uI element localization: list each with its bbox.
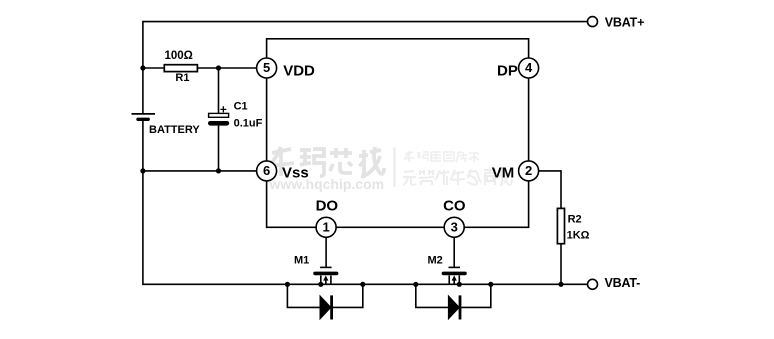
wire C1 top [218,68,220,113]
wire Vss row [143,170,257,172]
left rail wire (top) [142,21,144,114]
transistor M2 [428,254,466,284]
diode D1 (M1 body diode) [287,284,362,319]
pin 4 DP [519,58,539,78]
pin 1 DO [316,217,336,237]
svg-text:0.1uF: 0.1uF [234,118,263,130]
svg-text:3: 3 [451,219,458,234]
wire pin3 to M2 gate [453,237,455,267]
pin 2 VM [519,161,539,181]
terminal VBAT- [588,279,598,289]
node junction R2/rail [558,282,563,287]
wire VM to R2 [539,171,561,209]
terminal VBAT+ [588,17,598,27]
svg-text:BATTERY: BATTERY [149,124,200,136]
pin 5 VDD [257,58,277,78]
node junction M2 source/rail [457,282,462,287]
svg-text:M1: M1 [294,255,309,267]
diode D2 (M2 body diode) [416,284,491,319]
node junction D1 cathode/rail [360,282,365,287]
svg-text:4: 4 [525,60,533,75]
resistor R1 [164,50,197,84]
svg-text:VDD: VDD [283,63,315,80]
char 4 [359,147,384,177]
svg-text:DP: DP [497,63,518,80]
bottom rail wire to VBAT- [143,283,588,285]
node junction D2 cathode/rail [488,282,493,287]
char 1 [269,147,294,176]
char 2 [300,149,324,176]
svg-text:M2: M2 [428,254,443,266]
wire R2 to bottom rail [560,244,562,285]
node junction R1/C1 [216,65,221,70]
top rail wire (battery+ to VBAT+) [143,21,588,23]
watermark 华强集团旗下 [404,151,479,162]
resistor R2 [557,208,589,243]
svg-text:2: 2 [525,163,532,178]
char 3 [330,148,352,173]
node junction C1/Vss [216,168,221,173]
svg-text:6: 6 [263,163,270,178]
pin 6 Vss [257,161,277,181]
capacitor C1 [209,101,263,130]
node junction D1 anode/rail [285,282,290,287]
svg-text:CO: CO [443,197,466,214]
svg-text:Vss: Vss [282,165,309,182]
svg-text:C1: C1 [234,101,248,113]
node junction D2 anode/rail [413,282,418,287]
svg-text:1KΩ: 1KΩ [567,229,590,241]
svg-text:VBAT+: VBAT+ [605,15,644,29]
battery BATTERY [132,114,201,136]
watermark 元器件在线商城 [403,168,512,185]
wire VDD row [143,67,257,69]
svg-text:VM: VM [492,165,515,182]
pin 3 CO [444,217,464,237]
svg-text:R1: R1 [175,72,189,84]
op-amp U1 IC body outline [267,39,529,228]
wire pin1 to M1 gate [325,237,327,267]
svg-text:5: 5 [263,60,270,75]
left rail wire (bottom) [142,119,144,285]
node junction at battery/R1 [140,65,145,70]
svg-text:R2: R2 [568,213,582,225]
transistor M1 [294,255,337,285]
node junction battery/Vss [140,168,145,173]
node junction M1 source/rail [318,282,323,287]
svg-text:100Ω: 100Ω [165,50,193,62]
svg-text:1: 1 [322,219,329,234]
wire C1 bottom [218,126,220,171]
svg-text:VBAT-: VBAT- [605,276,641,290]
watermark 华强芯城 (drawn as light-gray stroke glyphs) [269,147,384,177]
watermark divider [393,148,395,187]
svg-text:DO: DO [316,197,339,214]
